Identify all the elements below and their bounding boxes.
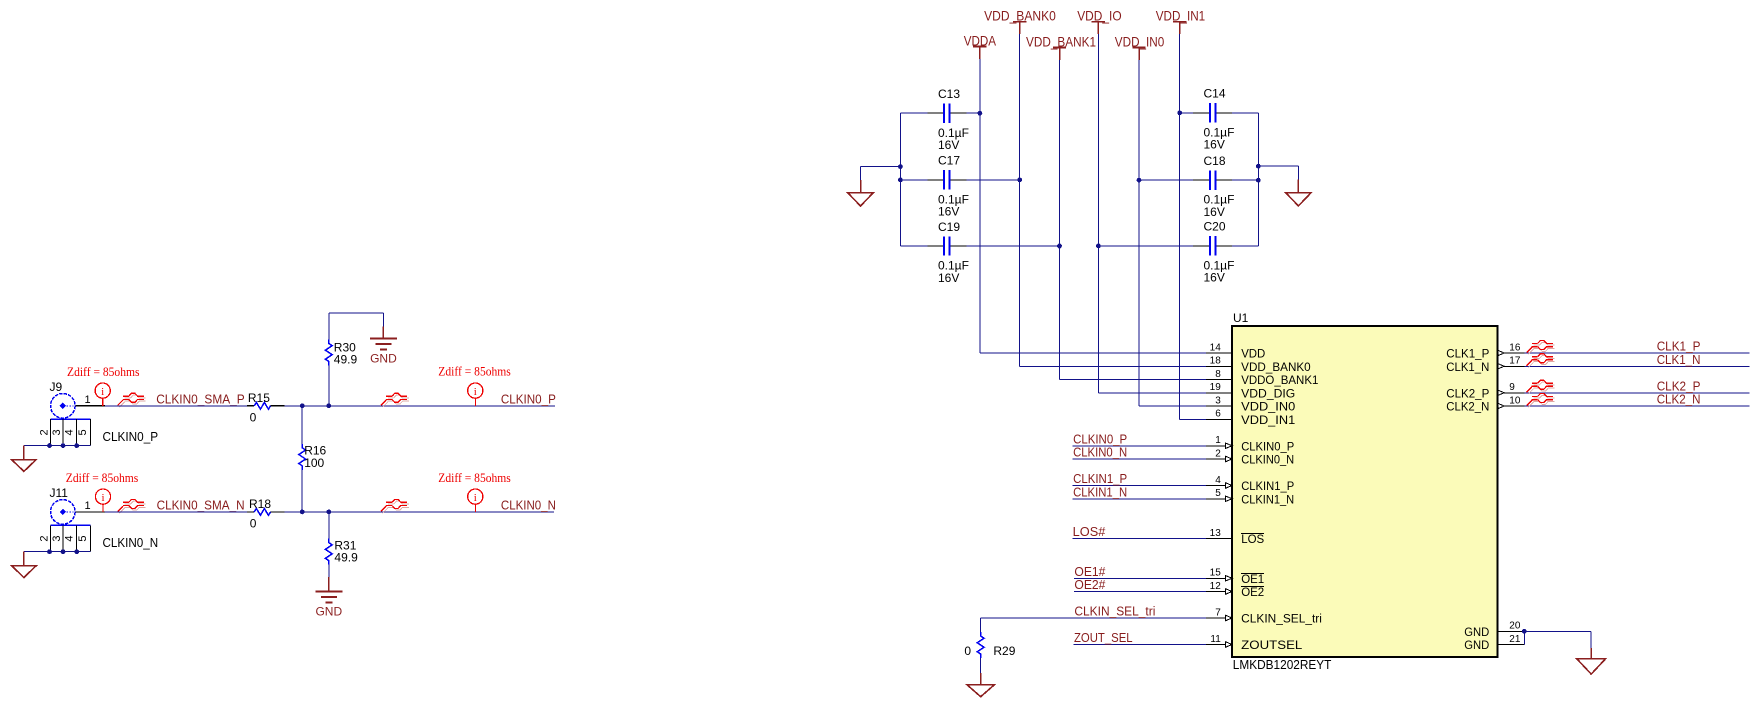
ground U1 bbox=[1577, 659, 1606, 674]
svg-text:CLK1_N: CLK1_N bbox=[1657, 353, 1701, 367]
svg-text:13: 13 bbox=[1210, 528, 1222, 539]
wire VDD_IO to pin bbox=[1098, 392, 1205, 394]
pin 5 CLKIN1_N bbox=[1206, 488, 1294, 506]
power port VDD_BANK0 bbox=[984, 8, 1056, 35]
wire VDD_IN0 to pin bbox=[1139, 405, 1206, 407]
resistor R18 bbox=[247, 511, 254, 513]
pin 3 VDD_IN0 bbox=[1206, 395, 1295, 413]
svg-text:R29: R29 bbox=[993, 644, 1015, 658]
junction R31 top bbox=[326, 510, 331, 515]
pin 18 VDD_BANK0 bbox=[1206, 356, 1311, 374]
wire rail VDD_BANK1 bbox=[1059, 60, 1061, 380]
svg-text:CLKIN_SEL_tri: CLKIN_SEL_tri bbox=[1074, 605, 1155, 619]
svg-text:OE2#: OE2# bbox=[1074, 578, 1105, 592]
svg-text:GND: GND bbox=[1464, 640, 1489, 652]
pin 12 OE2 bbox=[1206, 581, 1264, 599]
resistor R15 bbox=[247, 405, 254, 407]
wire CLKIN0_N bbox=[1073, 458, 1206, 460]
svg-text:49.9: 49.9 bbox=[334, 353, 358, 367]
junction GND pins bbox=[1522, 629, 1527, 634]
svg-text:2: 2 bbox=[1215, 448, 1221, 459]
svg-text:16: 16 bbox=[1509, 342, 1521, 353]
connector J9 SMA bbox=[38, 380, 90, 446]
svg-text:Zdiff = 85ohms: Zdiff = 85ohms bbox=[438, 364, 511, 379]
svg-text:CLKIN0_P: CLKIN0_P bbox=[1073, 432, 1127, 446]
pin 10 CLK2_N bbox=[1446, 395, 1524, 413]
svg-text:100: 100 bbox=[304, 456, 324, 470]
wire OE1# bbox=[1074, 577, 1206, 579]
svg-text:CLK2_N: CLK2_N bbox=[1657, 393, 1701, 407]
wire VDD_BANK0 to pin bbox=[1020, 365, 1206, 367]
wire rail VDD_BANK0 bbox=[1019, 34, 1021, 366]
junction R16 bottom bbox=[300, 510, 305, 515]
svg-text:15: 15 bbox=[1210, 568, 1222, 579]
ground stem R31 bbox=[328, 577, 330, 592]
wire rail VDD_IO bbox=[1097, 34, 1099, 393]
wire right cap bus bbox=[1257, 113, 1259, 246]
svg-text:C13: C13 bbox=[938, 87, 960, 101]
capacitor C13 bbox=[900, 112, 927, 114]
svg-text:16V: 16V bbox=[1204, 205, 1225, 219]
resistor R30 bbox=[328, 365, 330, 405]
svg-text:VDDA: VDDA bbox=[964, 32, 997, 48]
junction J11 pin2 bbox=[47, 549, 52, 554]
svg-text:1: 1 bbox=[1215, 435, 1221, 446]
capacitor C14 bbox=[1180, 112, 1194, 114]
svg-text:4: 4 bbox=[64, 535, 76, 541]
svg-text:R18: R18 bbox=[249, 497, 271, 511]
svg-text:GND: GND bbox=[1464, 627, 1489, 639]
junction VDD_IN0 / C18 bbox=[1137, 178, 1142, 183]
svg-text:CLKIN0_P: CLKIN0_P bbox=[501, 393, 556, 407]
ground GND (R31) bbox=[315, 592, 342, 619]
capacitor C20 bbox=[1098, 245, 1193, 247]
differential pair icon (CLK1_N) bbox=[1527, 354, 1555, 368]
svg-text:0: 0 bbox=[964, 644, 971, 658]
ground stem J9 bbox=[23, 446, 25, 460]
svg-text:CLKIN0_N: CLKIN0_N bbox=[1241, 455, 1294, 467]
directive circle-i (CLKIN0_P) bbox=[468, 383, 483, 406]
svg-text:14: 14 bbox=[1210, 342, 1222, 353]
svg-text:C14: C14 bbox=[1204, 87, 1226, 101]
svg-text:CLK2_P: CLK2_P bbox=[1657, 379, 1701, 393]
svg-text:5: 5 bbox=[77, 429, 89, 435]
svg-text:0: 0 bbox=[250, 517, 257, 531]
ground GND (R30) bbox=[370, 338, 397, 365]
directive circle-i (CLKIN0_SMA_N) bbox=[95, 489, 110, 512]
svg-text:12: 12 bbox=[1210, 581, 1222, 592]
wire R30 to GND bbox=[329, 312, 384, 314]
svg-text:16V: 16V bbox=[938, 271, 959, 285]
pin 8 VDDO_BANK1 bbox=[1206, 369, 1319, 387]
svg-text:CLK1_N: CLK1_N bbox=[1446, 362, 1489, 374]
ground stem caps right bbox=[1297, 180, 1299, 193]
svg-text:VDD_BANK0: VDD_BANK0 bbox=[984, 8, 1056, 24]
svg-text:CLKIN0_N: CLKIN0_N bbox=[501, 499, 556, 513]
pin 17 CLK1_N bbox=[1446, 356, 1524, 374]
capacitor C18 bbox=[1139, 179, 1193, 181]
junction left bus / gnd stub bbox=[898, 164, 903, 169]
svg-text:CLK2_N: CLK2_N bbox=[1446, 402, 1489, 414]
svg-text:3: 3 bbox=[1215, 395, 1221, 406]
wire CLKIN0_SMA_P bbox=[105, 405, 247, 407]
svg-text:C18: C18 bbox=[1204, 154, 1226, 168]
power port VDD_IN0 bbox=[1115, 33, 1165, 60]
directive circle-i (CLKIN0_N) bbox=[468, 489, 483, 512]
svg-text:18: 18 bbox=[1210, 356, 1222, 367]
svg-text:C17: C17 bbox=[938, 154, 960, 168]
junction J9 pin2 bbox=[47, 443, 52, 448]
svg-text:4: 4 bbox=[1215, 475, 1221, 486]
wire OE2# bbox=[1074, 591, 1206, 593]
junction right bus / C18 bbox=[1256, 178, 1261, 183]
svg-text:CLK1_P: CLK1_P bbox=[1446, 349, 1489, 361]
wire rail VDD_IN1 bbox=[1179, 34, 1181, 419]
svg-text:Zdiff = 85ohms: Zdiff = 85ohms bbox=[438, 470, 511, 485]
ground J11 bbox=[12, 566, 37, 578]
svg-text:CLKIN0_N: CLKIN0_N bbox=[103, 536, 159, 550]
svg-text:49.9: 49.9 bbox=[334, 551, 358, 565]
wire CLKIN0_N bbox=[285, 511, 554, 513]
capacitor C17 bbox=[900, 179, 927, 181]
svg-text:GND: GND bbox=[315, 605, 342, 619]
wire J9 shield to ground bbox=[24, 445, 91, 447]
pin 4 CLKIN1_P bbox=[1206, 475, 1295, 493]
pin 21 GND bbox=[1464, 634, 1524, 652]
pin 11 ZOUTSEL bbox=[1206, 634, 1303, 652]
svg-text:J11: J11 bbox=[50, 486, 69, 500]
ground caps left bbox=[848, 193, 873, 206]
wire CLK2_N bbox=[1524, 405, 1749, 407]
pin 6 VDD_IN1 bbox=[1206, 409, 1295, 427]
wire ZOUT_SEL bbox=[1074, 644, 1206, 646]
pin 9 CLK2_P bbox=[1446, 382, 1524, 400]
svg-text:3: 3 bbox=[51, 535, 63, 541]
svg-text:21: 21 bbox=[1509, 634, 1521, 645]
svg-text:CLKIN0_SMA_P: CLKIN0_SMA_P bbox=[156, 393, 245, 407]
ground J9 bbox=[12, 460, 37, 472]
svg-text:CLKIN1_N: CLKIN1_N bbox=[1241, 494, 1294, 506]
svg-text:10: 10 bbox=[1509, 395, 1521, 406]
svg-text:8: 8 bbox=[1215, 369, 1221, 380]
svg-text:i: i bbox=[101, 492, 104, 504]
junction J11 pin4 bbox=[74, 549, 79, 554]
wire CLKIN_SEL_tri bbox=[981, 617, 1206, 619]
svg-text:6: 6 bbox=[1215, 409, 1221, 420]
ground stem J11 bbox=[23, 552, 25, 566]
differential pair icon (CLK2_P) bbox=[1527, 380, 1555, 394]
svg-text:GND: GND bbox=[370, 352, 397, 366]
wire VDDA to pin bbox=[980, 352, 1206, 354]
wire rail VDDA bbox=[979, 59, 981, 353]
svg-text:5: 5 bbox=[1215, 488, 1221, 499]
ground R29 bbox=[967, 685, 994, 697]
svg-text:16V: 16V bbox=[938, 205, 959, 219]
svg-text:19: 19 bbox=[1210, 382, 1222, 393]
wire CLKIN0_P bbox=[285, 405, 555, 407]
junction right bus / gnd stub bbox=[1256, 164, 1261, 169]
pin 20 GND bbox=[1464, 621, 1524, 639]
svg-text:R15: R15 bbox=[248, 391, 270, 405]
wire rail VDD_IN0 bbox=[1138, 60, 1140, 406]
svg-text:C19: C19 bbox=[938, 220, 960, 234]
svg-text:CLKIN1_P: CLKIN1_P bbox=[1073, 472, 1127, 486]
wire GND pins to ground bbox=[1523, 631, 1525, 644]
svg-text:17: 17 bbox=[1509, 356, 1521, 367]
pin 1 J11 bbox=[75, 511, 105, 513]
svg-text:OE2: OE2 bbox=[1241, 587, 1264, 599]
svg-text:5: 5 bbox=[77, 535, 89, 541]
svg-text:16V: 16V bbox=[1204, 138, 1225, 152]
svg-text:C20: C20 bbox=[1204, 220, 1226, 234]
svg-text:20: 20 bbox=[1509, 621, 1521, 632]
differential pair icon (CLK2_N) bbox=[1527, 394, 1555, 408]
junction R16 top bbox=[300, 403, 305, 408]
svg-text:2: 2 bbox=[38, 535, 50, 541]
junction J9 pin3 bbox=[61, 443, 66, 448]
svg-text:CLKIN0_P: CLKIN0_P bbox=[103, 430, 159, 444]
wire CLKIN0_P bbox=[1073, 445, 1206, 447]
pin 14 VDD bbox=[1206, 342, 1265, 360]
svg-text:VDD_IN0: VDD_IN0 bbox=[1115, 33, 1165, 49]
wire CLKIN0_SMA_N bbox=[105, 511, 247, 513]
junction J11 pin3 bbox=[61, 549, 66, 554]
pin 13 LOS bbox=[1206, 528, 1265, 546]
svg-text:ZOUT_SEL: ZOUT_SEL bbox=[1074, 631, 1133, 645]
svg-text:1: 1 bbox=[84, 500, 90, 512]
ground caps right bbox=[1286, 193, 1311, 206]
differential pair icon (CLKIN0_SMA_P) bbox=[118, 393, 146, 407]
svg-text:VDD_IN0: VDD_IN0 bbox=[1241, 402, 1295, 414]
junction VDD_IO / C20 bbox=[1096, 244, 1101, 249]
svg-text:9: 9 bbox=[1509, 382, 1515, 393]
svg-text:CLKIN1_N: CLKIN1_N bbox=[1073, 485, 1127, 499]
svg-text:OE1: OE1 bbox=[1241, 574, 1264, 586]
differential pair icon (CLKIN0_P) bbox=[381, 393, 409, 407]
svg-text:ZOUTSEL: ZOUTSEL bbox=[1241, 640, 1303, 652]
wire CLK2_P bbox=[1524, 392, 1749, 394]
svg-text:CLK2_P: CLK2_P bbox=[1446, 388, 1489, 400]
junction VDD_IN1 / C14 bbox=[1177, 111, 1182, 116]
wire LOS# bbox=[1072, 538, 1206, 540]
pin 1 CLKIN0_P bbox=[1206, 435, 1295, 453]
wire left gnd stub bbox=[861, 166, 901, 168]
svg-text:CLKIN0_P: CLKIN0_P bbox=[1241, 441, 1294, 453]
svg-text:OE1#: OE1# bbox=[1074, 565, 1105, 579]
ground stem U1 bbox=[1590, 648, 1592, 659]
svg-text:LOS#: LOS# bbox=[1073, 525, 1106, 539]
svg-text:4: 4 bbox=[64, 429, 76, 435]
wire CLK1_N bbox=[1524, 365, 1749, 367]
svg-text:i: i bbox=[101, 386, 104, 398]
junction VDD_BANK0 / C17 bbox=[1017, 178, 1022, 183]
wire CLKIN1_P bbox=[1073, 485, 1206, 487]
resistor R16 bbox=[301, 406, 303, 444]
resistor R31 bbox=[328, 512, 330, 539]
svg-text:VDD: VDD bbox=[1241, 349, 1265, 361]
wire VDD_BANK1 to pin bbox=[1060, 379, 1206, 381]
junction R30 bottom bbox=[326, 403, 331, 408]
wire CLK1_P bbox=[1524, 352, 1749, 354]
pin 7 CLKIN_SEL_tri bbox=[1206, 607, 1322, 625]
svg-text:VDD_BANK0: VDD_BANK0 bbox=[1241, 362, 1311, 374]
svg-text:LOS: LOS bbox=[1241, 534, 1264, 546]
wire left cap bus bbox=[899, 113, 901, 246]
capacitor C19 bbox=[900, 245, 927, 247]
differential pair icon (CLK1_P) bbox=[1527, 341, 1555, 355]
svg-text:LMKDB1202REYT: LMKDB1202REYT bbox=[1233, 658, 1332, 672]
svg-text:U1: U1 bbox=[1233, 311, 1249, 325]
junction VDD_BANK1 / C19 bbox=[1057, 244, 1062, 249]
svg-text:16V: 16V bbox=[938, 138, 959, 152]
pin 1 J9 bbox=[75, 405, 105, 407]
svg-text:VDDO_BANK1: VDDO_BANK1 bbox=[1241, 375, 1318, 387]
pin 16 CLK1_P bbox=[1446, 342, 1524, 360]
svg-text:2: 2 bbox=[38, 429, 50, 435]
wire J11 shield to ground bbox=[24, 551, 91, 553]
directive circle-i (CLKIN0_SMA_P) bbox=[95, 383, 110, 406]
svg-text:CLKIN0_SMA_N: CLKIN0_SMA_N bbox=[157, 499, 245, 513]
resistor R29 bbox=[980, 618, 982, 632]
pin 15 OE1 bbox=[1206, 568, 1264, 586]
differential pair icon (CLKIN0_N) bbox=[381, 499, 409, 513]
svg-text:1: 1 bbox=[84, 394, 90, 406]
svg-text:CLKIN_SEL_tri: CLKIN_SEL_tri bbox=[1241, 614, 1322, 626]
connector J11 SMA bbox=[38, 486, 90, 552]
wire right gnd stub bbox=[1258, 165, 1298, 167]
junction left bus / C17 bbox=[898, 178, 903, 183]
svg-text:Zdiff = 85ohms: Zdiff = 85ohms bbox=[67, 364, 140, 379]
svg-text:J9: J9 bbox=[50, 380, 63, 394]
svg-text:VDD_IO: VDD_IO bbox=[1077, 8, 1121, 24]
power port VDD_IO bbox=[1077, 8, 1121, 35]
power port VDD_BANK1 bbox=[1026, 33, 1096, 60]
pin 2 CLKIN0_N bbox=[1206, 448, 1294, 466]
svg-text:11: 11 bbox=[1210, 634, 1221, 645]
pin 19 VDD_DIG bbox=[1206, 382, 1295, 400]
differential pair icon (CLKIN0_SMA_N) bbox=[118, 499, 146, 513]
junction VDDA / C13 bbox=[978, 111, 983, 116]
svg-text:CLKIN1_P: CLKIN1_P bbox=[1241, 481, 1294, 493]
svg-text:VDD_BANK1: VDD_BANK1 bbox=[1026, 33, 1096, 49]
svg-text:0: 0 bbox=[250, 411, 257, 425]
ground stem R29 bbox=[980, 673, 982, 685]
svg-text:i: i bbox=[474, 386, 477, 398]
svg-text:VDD_DIG: VDD_DIG bbox=[1241, 388, 1295, 400]
wire VDD_IN1 to pin bbox=[1180, 418, 1206, 420]
power port VDDA bbox=[964, 32, 997, 59]
ground stem caps left bbox=[860, 180, 862, 193]
svg-text:VDD_IN1: VDD_IN1 bbox=[1156, 8, 1206, 24]
svg-text:CLKIN0_N: CLKIN0_N bbox=[1073, 446, 1127, 460]
svg-text:16V: 16V bbox=[1204, 271, 1225, 285]
wire CLKIN1_N bbox=[1073, 498, 1206, 500]
svg-text:Zdiff = 85ohms: Zdiff = 85ohms bbox=[66, 470, 139, 485]
svg-text:3: 3 bbox=[51, 429, 63, 435]
svg-text:VDD_IN1: VDD_IN1 bbox=[1241, 415, 1295, 427]
svg-text:CLK1_P: CLK1_P bbox=[1657, 340, 1701, 354]
op-amp U1 body bbox=[1232, 326, 1497, 657]
svg-text:i: i bbox=[474, 492, 477, 504]
svg-text:7: 7 bbox=[1215, 607, 1221, 618]
junction J9 pin4 bbox=[74, 443, 79, 448]
power port VDD_IN1 bbox=[1156, 8, 1206, 35]
ground stem R30 bbox=[382, 327, 384, 339]
